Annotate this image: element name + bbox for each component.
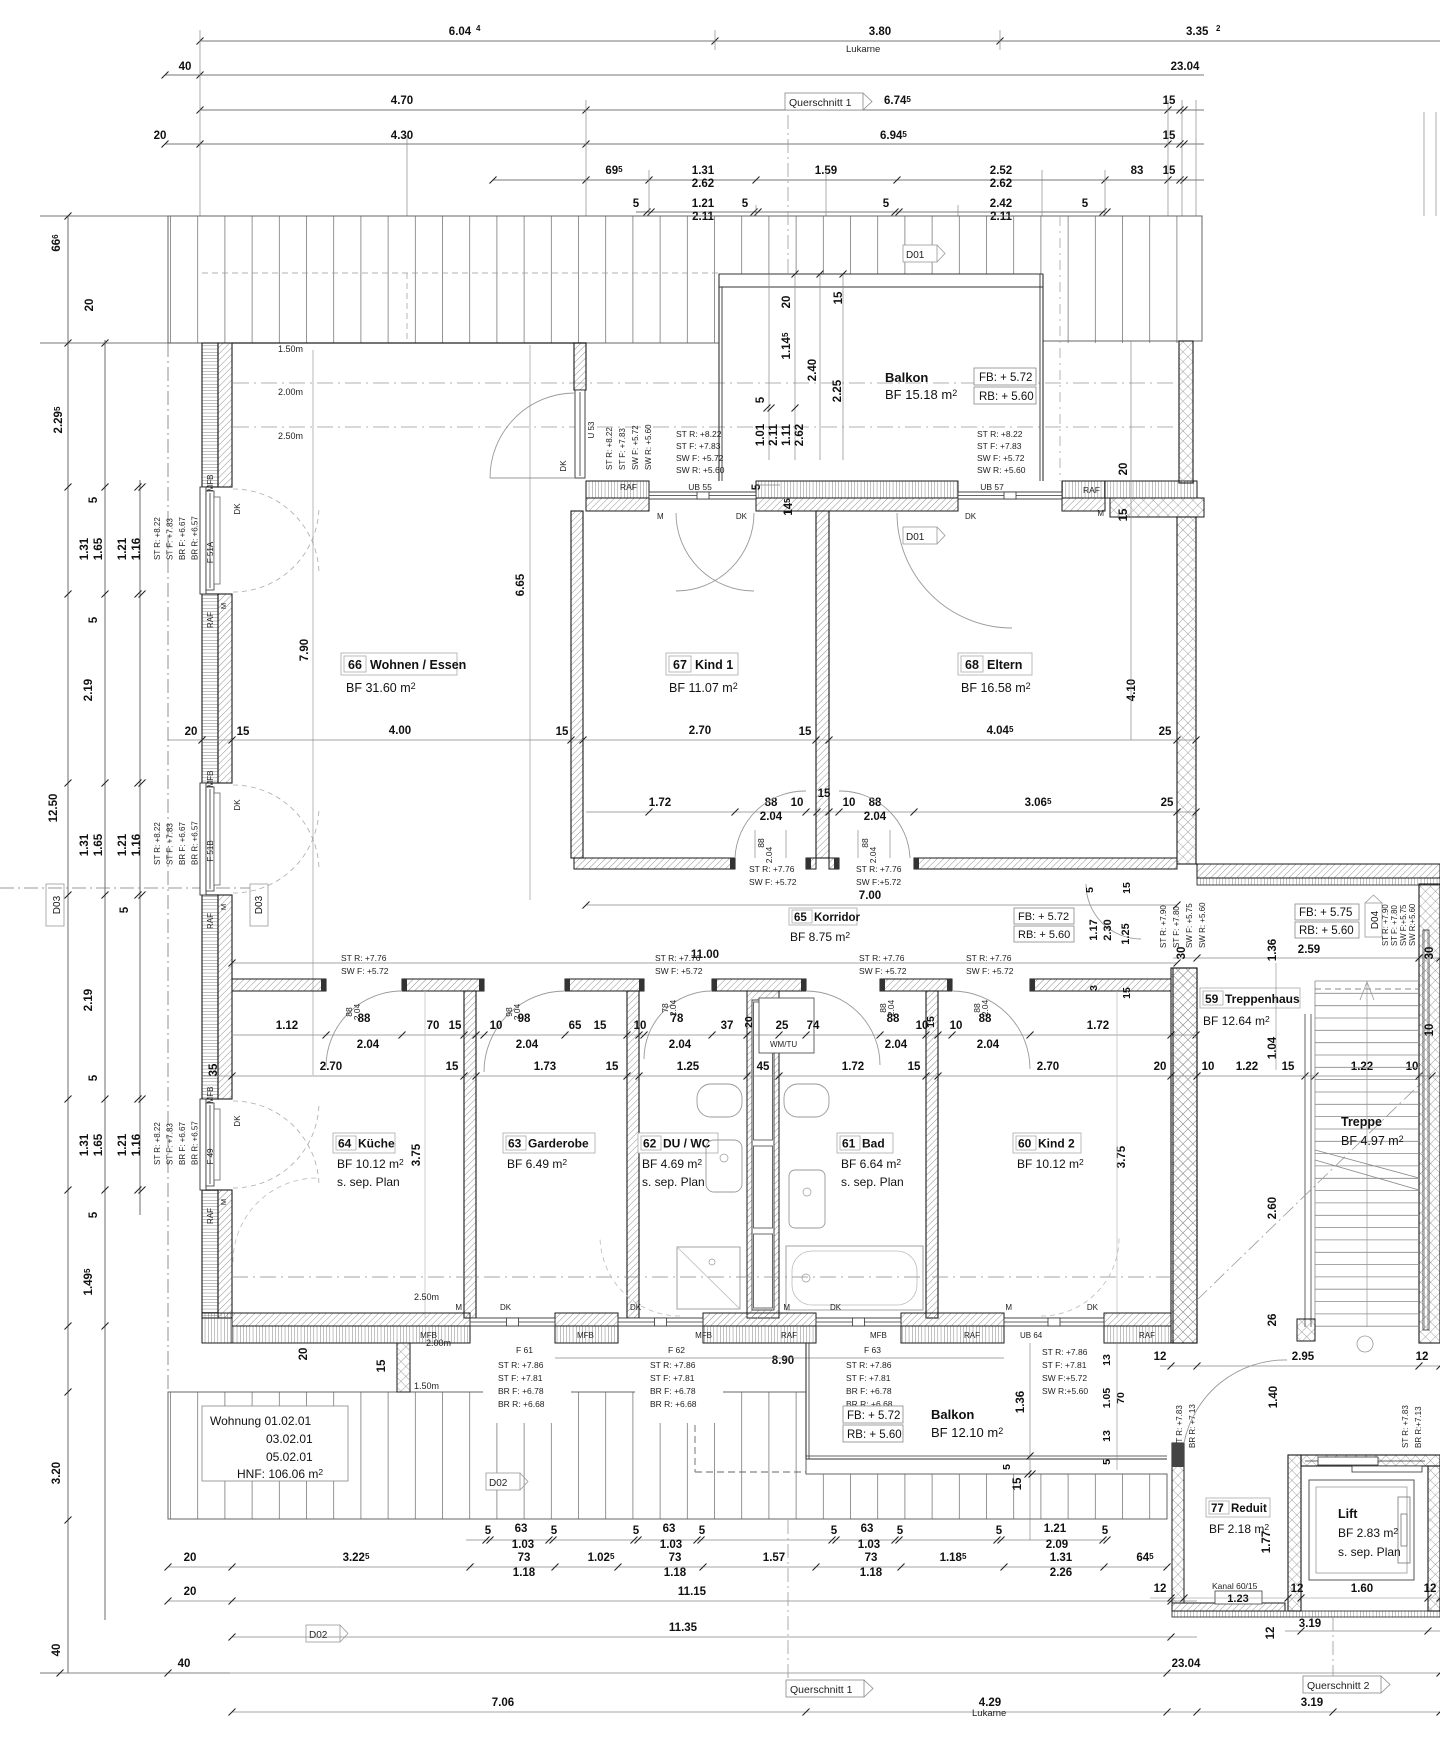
svg-text:2.04: 2.04 [516,1039,539,1051]
svg-text:2.50m: 2.50m [278,431,303,441]
corridor top wall segment [829,858,839,869]
svg-text:5: 5 [88,496,100,503]
dim row y 1362 below stair [1160,1365,1440,1367]
door swing [806,991,880,1065]
WM/TU niche [759,998,814,1053]
corridor level boxes [1014,908,1074,924]
window F 49 [200,1099,206,1190]
corridor top wall segment [914,858,1177,869]
svg-text:1.17: 1.17 [1088,919,1100,940]
svg-text:1.21: 1.21 [117,537,129,560]
left dimension chains [67,216,69,1673]
Reduit label [1206,1498,1270,1517]
svg-text:40: 40 [51,1644,63,1657]
svg-text:12: 12 [1424,1583,1437,1595]
svg-text:MFB: MFB [206,475,215,492]
svg-text:2.04: 2.04 [352,1003,362,1020]
svg-text:UB 55: UB 55 [688,482,712,492]
svg-text:1.50m: 1.50m [414,1381,439,1391]
svg-text:FB: + 5.72: FB: + 5.72 [847,1410,900,1422]
room label 66 Wohnen / Essen [341,653,457,675]
svg-text:63: 63 [508,1137,522,1151]
svg-text:62: 62 [643,1137,657,1151]
svg-text:1.72: 1.72 [842,1061,864,1073]
svg-text:Wohnen / Essen: Wohnen / Essen [370,658,466,672]
svg-text:BF 8.75 m2: BF 8.75 m2 [790,930,850,944]
svg-text:05.02.01: 05.02.01 [266,1450,313,1464]
top dimension chain lines [200,40,1440,42]
svg-text:12: 12 [1291,1583,1304,1595]
svg-text:Garderobe: Garderobe [528,1137,589,1151]
section line Querschnitt 1 (vertical dash-dot) [787,115,789,274]
svg-text:BR F: +6.78: BR F: +6.78 [846,1386,892,1396]
roof height line 2.50m [233,426,1177,428]
svg-text:RAF: RAF [781,1331,797,1340]
svg-text:2.11: 2.11 [692,211,714,223]
svg-text:RAF: RAF [206,1208,215,1224]
svg-text:BF 6.49 m2: BF 6.49 m2 [507,1157,567,1171]
svg-text:1.65: 1.65 [93,833,105,856]
svg-text:1.21: 1.21 [1044,1523,1067,1535]
left wall outer strip [202,895,218,1099]
svg-text:5: 5 [1084,887,1096,893]
wall stub above U53 [574,343,586,390]
svg-text:1.04: 1.04 [1267,1036,1279,1059]
svg-text:88: 88 [765,797,778,809]
lift car [1309,1480,1414,1580]
svg-text:BF 10.12 m2: BF 10.12 m2 [337,1157,404,1171]
svg-text:D04: D04 [1370,910,1381,929]
svg-text:RB: + 5.60: RB: + 5.60 [979,391,1034,403]
svg-text:2.04: 2.04 [668,999,678,1016]
svg-text:2.60: 2.60 [1267,1197,1279,1219]
svg-text:Reduit: Reduit [1231,1503,1267,1515]
svg-text:F 51A: F 51A [206,541,215,563]
svg-text:8.90: 8.90 [772,1355,794,1367]
roof edge axis (dash-dot, left) [167,343,169,1392]
corridor label [789,908,857,925]
svg-text:ST F: +7.83: ST F: +7.83 [166,518,175,560]
svg-text:11.15: 11.15 [678,1586,707,1598]
svg-text:5: 5 [88,616,100,623]
door swing [644,991,712,1059]
svg-text:2.04: 2.04 [868,846,878,863]
svg-text:11.35: 11.35 [669,1622,698,1634]
svg-text:Korridor: Korridor [814,912,861,924]
svg-text:73: 73 [518,1552,531,1564]
door arc Reduit [1184,1360,1287,1443]
left wall inner strip [218,1190,232,1318]
roof band outline [168,216,1202,343]
dashed arcs bottom rooms (DK windows) [600,1236,680,1316]
svg-text:2.70: 2.70 [689,725,711,737]
svg-text:2.42: 2.42 [990,198,1012,210]
svg-text:6.65: 6.65 [515,573,527,596]
svg-text:2.70: 2.70 [320,1061,342,1073]
svg-text:BR R: +6.57: BR R: +6.57 [191,1121,200,1165]
svg-text:12: 12 [1265,1627,1277,1640]
svg-text:15: 15 [376,1359,388,1372]
svg-text:ST R: +7.86: ST R: +7.86 [650,1360,696,1370]
svg-text:13: 13 [1101,1354,1113,1366]
svg-text:15: 15 [799,726,812,738]
D04 marker [1365,903,1382,937]
svg-text:1.73: 1.73 [534,1061,556,1073]
dims around lift [1150,1597,1440,1599]
svg-text:7.90: 7.90 [299,639,311,661]
svg-text:M: M [783,1303,790,1312]
svg-text:DK: DK [500,1303,512,1312]
svg-text:6.04: 6.04 [449,26,472,38]
stair handrail [1304,1014,1306,1327]
wall Bad/Kind 2 [926,991,938,1318]
svg-text:SW F: +5.72: SW F: +5.72 [341,966,389,976]
svg-text:63: 63 [515,1523,528,1535]
svg-text:BF 6.64 m2: BF 6.64 m2 [841,1157,901,1171]
newel post [1297,1319,1315,1341]
balcony (bottom) slab edges [805,1343,807,1459]
FB/RB level boxes (top balcony) [974,368,1036,385]
svg-text:RB: + 5.60: RB: + 5.60 [1018,929,1070,941]
section line Querschnitt 2 [1332,1617,1334,1676]
svg-text:10: 10 [634,1020,647,1032]
svg-text:BR F: +6.78: BR F: +6.78 [650,1386,696,1396]
svg-text:ST F: +7.83: ST F: +7.83 [676,441,721,451]
svg-text:13: 13 [1101,1430,1113,1442]
svg-text:2.19: 2.19 [83,679,95,701]
svg-text:1.21: 1.21 [117,1133,129,1156]
bottom wall corner piece [202,1313,232,1343]
svg-text:DK: DK [736,512,748,521]
svg-text:5: 5 [1102,1525,1109,1537]
door swing [326,991,402,1067]
room label 67 Kind 1 [666,653,738,675]
left wall inner strip [218,895,232,1099]
svg-text:10: 10 [843,797,856,809]
svg-text:2.50m: 2.50m [414,1292,439,1302]
washbasin DU/WC [697,1084,742,1117]
svg-text:60: 60 [1018,1137,1032,1151]
bottom band outline [168,1392,1167,1519]
svg-text:MFB: MFB [870,1331,887,1340]
door swing [735,791,806,858]
svg-text:DK: DK [233,503,242,515]
left wall outer strip [202,1190,218,1318]
svg-text:Lukarne: Lukarne [846,44,880,55]
center axis through bottom rooms [232,1276,1171,1278]
window U 53 [575,390,585,478]
stairwell labels [1200,988,1300,1008]
D02 markers [486,1473,520,1490]
bottom wall segment [1104,1313,1171,1326]
svg-text:15: 15 [1163,95,1176,107]
svg-text:ST R: +8.22: ST R: +8.22 [977,429,1023,439]
svg-text:SW R: +5.60: SW R: +5.60 [1198,902,1207,948]
svg-text:73: 73 [669,1552,682,1564]
svg-text:SW F: +5.72: SW F: +5.72 [749,877,797,887]
svg-text:3.20: 3.20 [51,1462,63,1484]
Querschnitt 2 bottom marker [1303,1676,1381,1693]
svg-text:ST R: +7.76: ST R: +7.76 [655,953,701,963]
door swing [676,513,754,591]
door swing [897,513,1012,628]
svg-text:5: 5 [551,1525,558,1537]
svg-text:2.09: 2.09 [1046,1539,1068,1551]
svg-text:ST R: +7.83: ST R: +7.83 [1175,1405,1184,1448]
svg-text:1.25: 1.25 [677,1061,700,1073]
svg-text:DK: DK [1087,1303,1099,1312]
dashed lukarne outline bottom [694,1392,696,1472]
window sill strip RAF [1062,481,1105,498]
room label 60 Kind 2 [1013,1133,1081,1153]
svg-text:5: 5 [831,1525,838,1537]
svg-text:SW R: +5.60: SW R: +5.60 [676,465,725,475]
right wall upper cross-hatch [1179,341,1193,483]
svg-text:Treppenhaus: Treppenhaus [1225,992,1300,1006]
bottom wall segment [232,1313,470,1326]
shower [677,1247,740,1309]
window F 51A [200,487,206,594]
svg-text:15: 15 [606,1061,619,1073]
svg-text:10: 10 [950,1020,963,1032]
svg-text:20: 20 [184,1552,197,1564]
svg-text:5: 5 [751,483,763,490]
svg-text:RB: + 5.60: RB: + 5.60 [847,1429,902,1441]
svg-text:65: 65 [569,1020,582,1032]
cabinet Bad [789,1170,825,1228]
svg-text:ST F: +7.83: ST F: +7.83 [166,823,175,865]
svg-text:FB: + 5.72: FB: + 5.72 [1018,911,1069,923]
svg-text:20: 20 [743,1016,755,1028]
bathtub [786,1246,923,1310]
bottom wall MFB strip [555,1326,618,1343]
svg-text:ST R: +7.83: ST R: +7.83 [1401,1405,1410,1448]
bottom wall segment [901,1313,1004,1326]
svg-text:1.36: 1.36 [1267,939,1279,961]
svg-text:88: 88 [756,838,766,848]
svg-text:65: 65 [794,912,807,924]
stair walk line with arrow [1366,981,1368,1327]
svg-text:SW R: +5.60: SW R: +5.60 [977,465,1026,475]
svg-text:U 53: U 53 [587,421,596,438]
svg-text:3.75: 3.75 [1116,1145,1128,1168]
svg-text:ST F: +7.80: ST F: +7.80 [1390,905,1399,946]
svg-text:20: 20 [1154,1061,1167,1073]
svg-text:20: 20 [298,1348,310,1361]
svg-text:2.04: 2.04 [357,1039,380,1051]
building right wall cross-hatch [1171,968,1197,1343]
svg-text:ST R: +7.76: ST R: +7.76 [856,864,902,874]
svg-text:RAF: RAF [206,612,215,628]
svg-text:4.10: 4.10 [1126,679,1138,701]
door swing [1086,884,1141,939]
svg-text:20: 20 [781,296,793,309]
svg-text:BF 10.12 m2: BF 10.12 m2 [1017,1157,1084,1171]
svg-text:1.31: 1.31 [79,537,91,560]
lift wall right [1428,1466,1440,1611]
svg-text:BR R: +6.57: BR R: +6.57 [191,516,200,560]
svg-text:D01: D01 [906,250,925,261]
svg-text:1.01: 1.01 [755,423,767,446]
svg-text:1.31: 1.31 [692,165,715,177]
svg-text:37: 37 [721,1020,734,1032]
bottom wall MFB strip [1104,1326,1171,1343]
svg-text:DK: DK [630,1303,642,1312]
svg-text:88: 88 [860,838,870,848]
svg-text:1.18: 1.18 [513,1567,536,1579]
svg-text:UB 57: UB 57 [980,482,1004,492]
svg-text:59: 59 [1205,992,1219,1006]
svg-text:1.31: 1.31 [79,1133,91,1156]
window F 51B [200,783,206,895]
svg-text:77: 77 [1211,1503,1224,1515]
svg-text:25: 25 [776,1020,789,1032]
svg-text:2: 2 [1216,24,1221,33]
svg-text:15: 15 [1118,508,1130,521]
svg-text:BF 11.07 m2: BF 11.07 m2 [669,681,738,695]
svg-text:Lift: Lift [1338,1507,1358,1521]
svg-text:BR F: +6.67: BR F: +6.67 [178,1122,187,1165]
svg-text:ST R: +8.22: ST R: +8.22 [153,1122,162,1165]
svg-text:DK: DK [830,1303,842,1312]
svg-text:D02: D02 [489,1478,508,1489]
svg-text:15: 15 [1282,1061,1295,1073]
corridor bottom wall segment [880,979,952,991]
svg-text:63: 63 [663,1523,676,1535]
svg-text:15: 15 [1163,165,1176,177]
svg-text:BR F: +6.78: BR F: +6.78 [498,1386,544,1396]
svg-text:7.00: 7.00 [859,890,881,902]
svg-text:RAF: RAF [620,482,637,492]
svg-text:1.21: 1.21 [117,833,129,856]
svg-text:SW F: +5.72: SW F: +5.72 [655,966,703,976]
axis D03 dash-dot [0,887,250,889]
svg-text:DK: DK [559,460,568,472]
svg-text:64: 64 [338,1137,352,1151]
svg-text:1.05: 1.05 [1101,1388,1113,1409]
svg-text:Kanal 60/15: Kanal 60/15 [1212,1581,1258,1591]
washbasin Bad [784,1084,829,1117]
sill strip right [1105,481,1197,498]
svg-text:2.04: 2.04 [512,1003,522,1020]
svg-text:FB: + 5.75: FB: + 5.75 [1299,907,1352,919]
svg-text:Balkon: Balkon [885,370,928,385]
wall [1172,1443,1184,1603]
svg-text:ST F: +7.81: ST F: +7.81 [498,1373,543,1383]
svg-text:15: 15 [833,291,845,304]
svg-text:73: 73 [865,1552,878,1564]
svg-text:BF 2.83 m2: BF 2.83 m2 [1338,1526,1398,1540]
dim row y 1072 (room widths bottom) [202,1075,1440,1077]
svg-text:74: 74 [807,1020,820,1032]
svg-text:ST F: +7.81: ST F: +7.81 [846,1373,891,1383]
door swing [952,991,1030,1069]
svg-text:Küche: Küche [358,1137,395,1151]
svg-text:F 49: F 49 [206,1148,215,1165]
svg-text:12.50: 12.50 [48,794,60,823]
svg-text:HNF: 106.06 m2: HNF: 106.06 m2 [237,1467,323,1481]
svg-text:15: 15 [925,1016,937,1028]
Querschnitt 1 marker [785,93,863,110]
svg-text:1.18: 1.18 [860,1567,883,1579]
svg-text:15: 15 [594,1020,607,1032]
svg-text:s. sep. Plan: s. sep. Plan [337,1175,400,1189]
svg-text:12: 12 [1416,1351,1429,1363]
bottom strip [1172,1611,1440,1617]
svg-text:67: 67 [673,658,687,672]
svg-text:SW F: +5.75: SW F: +5.75 [1185,903,1194,948]
svg-text:BR R: +6.57: BR R: +6.57 [191,821,200,865]
svg-text:SW R:+5.60: SW R:+5.60 [1408,903,1417,946]
svg-text:5: 5 [88,1074,100,1081]
Wohnung info box [202,1406,348,1481]
Querschnitt 1 bottom marker [786,1680,864,1697]
svg-text:15: 15 [237,726,250,738]
svg-text:1.03: 1.03 [660,1539,682,1551]
corridor bottom wall segment [1030,979,1171,991]
door swing [839,791,910,858]
svg-text:15: 15 [446,1061,459,1073]
svg-text:BR R:+7.13: BR R:+7.13 [1414,1406,1423,1448]
svg-text:M: M [219,1199,228,1205]
svg-text:1.60: 1.60 [1351,1583,1373,1595]
svg-text:1.72: 1.72 [1087,1020,1109,1032]
door swing [676,513,754,591]
svg-text:ST F: +7.81: ST F: +7.81 [650,1373,695,1383]
svg-text:D02: D02 [309,1630,328,1641]
svg-text:SW R: +5.60: SW R: +5.60 [644,424,653,470]
corridor bottom wall segment [232,979,326,991]
svg-text:ST R: +7.76: ST R: +7.76 [341,953,387,963]
svg-text:Lukarne: Lukarne [972,1708,1006,1719]
svg-text:03.02.01: 03.02.01 [266,1432,313,1446]
svg-text:DK: DK [233,1115,242,1127]
Wohnen top boundary line under roof band [232,342,586,344]
svg-text:1.23: 1.23 [1227,1593,1248,1605]
svg-text:ST F: +7.83: ST F: +7.83 [977,441,1022,451]
svg-text:SW F: +5.72: SW F: +5.72 [977,453,1025,463]
dimension row through upper rooms [168,739,1196,741]
svg-text:25: 25 [1161,797,1174,809]
svg-text:2.04: 2.04 [764,846,774,863]
svg-text:M: M [219,904,228,910]
svg-text:UB 64: UB 64 [1020,1331,1043,1340]
svg-text:3.35: 3.35 [1186,26,1209,38]
svg-text:ST R: +7.86: ST R: +7.86 [498,1360,544,1370]
svg-text:FB: + 5.72: FB: + 5.72 [979,372,1032,384]
svg-text:2.26: 2.26 [1050,1567,1072,1579]
wall [1173,968,1197,1343]
wall Kueche/Garderobe [464,991,476,1318]
svg-text:2.59: 2.59 [1298,944,1320,956]
svg-text:ST R: +8.22: ST R: +8.22 [676,429,722,439]
svg-text:26: 26 [1267,1314,1279,1327]
lift wall left [1288,1455,1301,1611]
svg-text:DU / WC: DU / WC [663,1137,711,1151]
svg-text:SW F:+5.75: SW F:+5.75 [1399,904,1408,946]
Lukarne dashed outline inside band [406,273,408,343]
svg-text:20: 20 [1118,463,1130,476]
left wall outer strip [202,594,218,783]
D03 axis markers [46,884,64,926]
stair cut diagonal [1197,1085,1419,1300]
top wall [586,498,649,511]
svg-text:68: 68 [965,658,979,672]
svg-text:SW F:+5.72: SW F:+5.72 [856,877,901,887]
svg-text:2.52: 2.52 [990,165,1012,177]
svg-text:ST F: +7.80: ST F: +7.80 [1172,906,1181,948]
svg-text:M: M [219,603,228,609]
